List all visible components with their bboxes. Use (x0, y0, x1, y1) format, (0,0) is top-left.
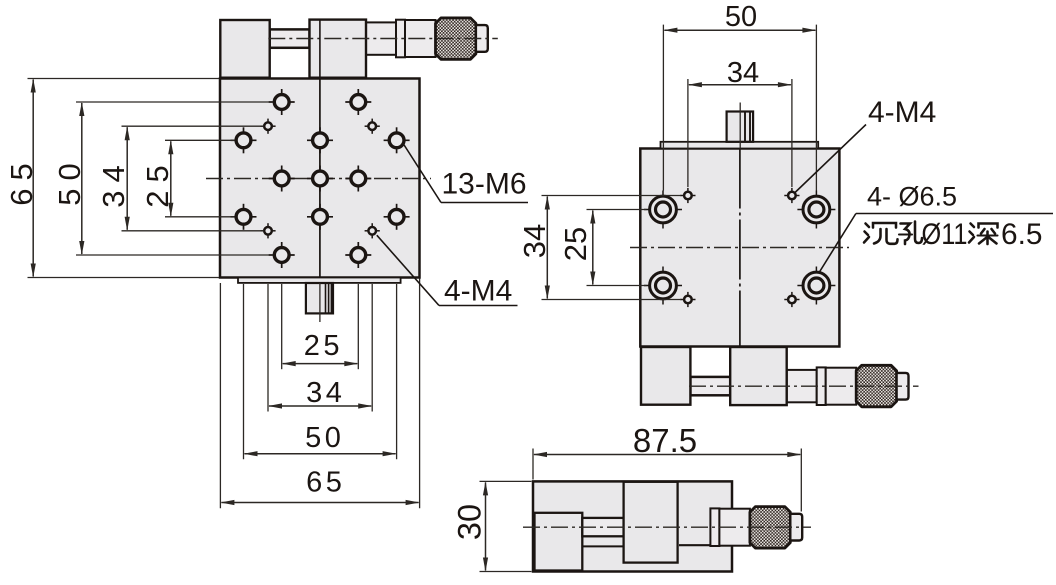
M6 hole #1 (269, 89, 295, 115)
dim 25 (view1 bottom) (282, 284, 359, 369)
M6 hole #12 (269, 242, 295, 268)
view2: stage front view (630, 103, 919, 407)
dim 34 (view1 left) (96, 126, 264, 231)
view1 bottom plate edge (238, 278, 401, 283)
view1 plate seam vertical centerline (319, 79, 321, 278)
view3 middle block (624, 482, 678, 563)
counterbore hole #3 (644, 267, 682, 305)
dim 25 (view1 left) (140, 140, 235, 217)
dim 65 (view1 bottom) (220, 279, 419, 509)
svg-text:25: 25 (140, 157, 175, 207)
label 4-M4 with leader (view1) (377, 235, 518, 307)
svg-text:87.5: 87.5 (633, 422, 697, 459)
dim 34 (view2 left) (517, 196, 681, 300)
view2 micrometer Y-axis (641, 347, 919, 407)
M6 hole #3 (231, 127, 257, 153)
M6 hole #9 (231, 204, 257, 230)
view2 horizontal centerline (630, 247, 849, 249)
svg-text:30: 30 (452, 504, 488, 540)
view1 Y-axis knob (306, 283, 333, 313)
label 4-D6.5 counterbore note (819, 182, 1054, 274)
view1: stage top view (206, 18, 498, 322)
M4 hole #2 (view1) (365, 119, 380, 134)
view3 left block (535, 513, 583, 571)
M4 hole #4 (view1) (365, 223, 380, 238)
M6 hole #5 (384, 127, 410, 153)
M6 hole #7 (307, 166, 333, 192)
svg-text:34: 34 (517, 224, 552, 258)
M6 hole #8 (345, 166, 371, 192)
view2 knob centerline (739, 103, 741, 150)
M4 hole #1 (view2) (680, 188, 695, 203)
M6 hole #6 (269, 166, 295, 192)
M6 hole #11 (384, 204, 410, 230)
svg-text:Ø11: Ø11 (922, 218, 968, 251)
dim 34 (view2 top) (688, 57, 792, 187)
M6 hole #2 (345, 89, 371, 115)
M6 hole #10 (307, 204, 333, 230)
svg-text:65: 65 (4, 155, 39, 205)
svg-text:50: 50 (305, 422, 344, 454)
view3 horizontal centerline (523, 526, 811, 528)
view2 top knob (727, 112, 754, 142)
dim 65 (view1 left) (4, 79, 219, 278)
svg-text:65: 65 (306, 467, 345, 499)
dim 34 (view1 bottom) (268, 284, 372, 412)
svg-text:13-M6: 13-M6 (442, 168, 527, 201)
svg-text:34: 34 (727, 57, 759, 89)
view3 lower plate split line (582, 545, 623, 547)
view2 vertical seam (739, 149, 741, 347)
view3 stage body (533, 481, 732, 571)
M4 hole #1 (view1) (260, 119, 275, 134)
note line2: chenkong D11 shen 6.5 (864, 218, 1043, 251)
svg-text:50: 50 (52, 155, 87, 205)
svg-text:4-M4: 4-M4 (868, 96, 936, 129)
M4 hole #2 (view2) (784, 188, 799, 203)
view1 stage body (220, 79, 420, 278)
svg-text:34: 34 (306, 377, 345, 409)
view3 bracket bottom edge (679, 544, 710, 546)
dim 87.5 (view3 top) (533, 422, 801, 512)
svg-text:25: 25 (558, 227, 593, 261)
dim 50 (view2 top) (663, 1, 816, 191)
M4 hole #3 (view2) (680, 292, 695, 307)
M4 hole #4 (view2) (784, 292, 799, 307)
view2 knob hatch (744, 112, 746, 141)
view1 horizontal centerline (206, 178, 431, 180)
svg-text:50: 50 (725, 1, 757, 33)
view1 micrometer X-axis (220, 18, 498, 78)
dim 50 (view1 bottom) (244, 284, 397, 459)
dim 25 (view2 left) (558, 210, 647, 286)
view1 micrometer bracket seam (319, 20, 321, 78)
counterbore hole #4 (797, 267, 835, 305)
svg-text:34: 34 (96, 157, 131, 207)
svg-text:25: 25 (304, 330, 343, 362)
counterbore hole #2 (797, 191, 835, 229)
view3: stage side view (523, 481, 811, 571)
view2 top plate (661, 142, 819, 149)
view3 micrometer outer arm (710, 507, 802, 549)
view2 stage body (640, 149, 839, 347)
svg-text:4- Ø6.5: 4- Ø6.5 (867, 182, 957, 212)
dim 50 (view1 left) (52, 102, 273, 255)
M6 hole #13 (345, 242, 371, 268)
counterbore hole #1 (644, 191, 682, 229)
svg-text:4-M4: 4-M4 (444, 275, 512, 308)
view3 shaft (582, 518, 623, 536)
view1 knob centerline (319, 283, 321, 322)
M4 hole #3 (view1) (260, 223, 275, 238)
view1 knob hatch (325, 284, 327, 313)
svg-text:6.5: 6.5 (1001, 218, 1043, 251)
label 13-M6 with leader (403, 143, 529, 203)
M6 hole #4 (307, 127, 333, 153)
label 4-M4 with leader (view2) (795, 96, 937, 193)
dim 30 (view3 left) (452, 481, 532, 571)
